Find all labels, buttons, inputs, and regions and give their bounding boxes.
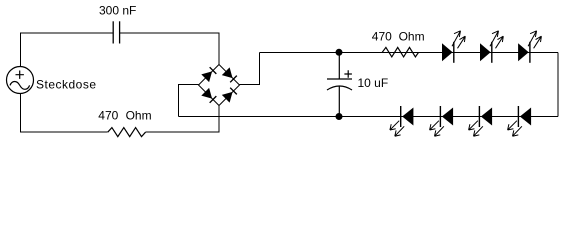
LED D7 (top row 3) <box>518 31 541 63</box>
LED D8 (bottom row 1) <box>390 106 414 136</box>
wire bottom rail <box>179 116 559 118</box>
diode D4 (bottom to right) <box>222 87 238 103</box>
node junction (capacitor bottom) <box>336 113 343 120</box>
wire resistor to bridge bottom <box>146 106 220 133</box>
resistor R2 470 Ohm (top) <box>382 47 418 57</box>
AC source V1 Steckdose <box>7 67 34 94</box>
wire bottom-left from source to resistor <box>20 94 107 133</box>
LED D10 (bottom row 3) <box>469 106 493 136</box>
wire bridge left vertex to bottom rail <box>179 85 199 117</box>
LED D11 (bottom row 4) <box>508 106 532 136</box>
wire top-left horizontal from source to capacitor <box>20 33 113 66</box>
LED D9 (bottom row 2) <box>430 106 454 136</box>
svg-text:Ohm: Ohm <box>126 109 152 123</box>
bridge rectifier diamond <box>199 65 240 106</box>
wire bridge right vertex to top rail <box>240 52 260 84</box>
diode D2 (top to right) <box>222 67 238 83</box>
svg-text:Steckdose: Steckdose <box>36 78 97 92</box>
LED D6 (top row 2) <box>480 31 503 63</box>
wire capacitor to bridge top <box>120 33 219 64</box>
diode D1 (left to top) <box>201 67 217 83</box>
wire top rail <box>260 51 559 53</box>
svg-text:10 uF: 10 uF <box>358 76 389 90</box>
svg-text:470: 470 <box>372 29 392 43</box>
capacitor C2 10 uF electrolytic <box>327 52 352 116</box>
svg-text:470: 470 <box>98 109 118 123</box>
capacitor C1 300 nF <box>113 21 119 43</box>
wire right edge vertical <box>557 52 559 116</box>
resistor R1 470 Ohm (bottom) <box>108 128 146 137</box>
svg-text:Ohm: Ohm <box>399 29 425 43</box>
LED D5 (top row 1) <box>442 31 465 63</box>
svg-text:300 nF: 300 nF <box>99 4 136 18</box>
diode D3 (left to bottom) <box>201 88 217 104</box>
node junction (capacitor top) <box>336 49 343 56</box>
